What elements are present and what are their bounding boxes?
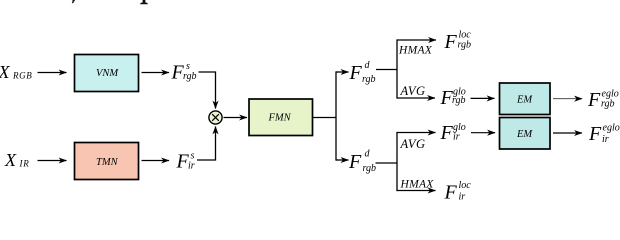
wire arrow AVG rgb: [397, 97, 435, 99]
wire main split vertical: [335, 71, 337, 160]
svg-text:loc: loc: [459, 29, 472, 40]
svg-text:rgb: rgb: [601, 98, 615, 109]
svg-text:F: F: [444, 31, 458, 53]
wire arrow split to F_d_rgb bottom: [336, 159, 349, 161]
node label F_loc_rgb: [444, 29, 472, 53]
wire ir branch vertical: [396, 132, 398, 191]
svg-text:ir: ir: [188, 160, 195, 171]
node label F_eglo_ir: [588, 123, 620, 145]
svg-text:eglo: eglo: [603, 123, 620, 134]
wire arrow X_RGB to VNM: [38, 72, 67, 74]
svg-text:F: F: [440, 122, 454, 144]
node label F_d_rgb top: [349, 60, 376, 85]
node label F_s_rgb: [171, 61, 197, 83]
svg-text:rgb: rgb: [363, 163, 377, 174]
block EM rgb: [500, 83, 551, 115]
svg-text:rgb: rgb: [458, 40, 472, 51]
svg-text:FMN: FMN: [268, 113, 292, 124]
svg-text:VNM: VNM: [96, 68, 119, 79]
block VNM: [75, 55, 139, 92]
node label F_glo_ir: [440, 122, 466, 144]
wire FMN output to split point: [313, 117, 336, 119]
svg-text:HMAX: HMAX: [398, 44, 433, 56]
multiplier node (circled times): [209, 111, 222, 124]
block EM ir: [500, 118, 551, 150]
input label X_RGB: [0, 62, 32, 82]
cropped caption fragment comma: [72, 0, 75, 3]
wire rgb branch vertical: [396, 39, 398, 98]
wire arrow F_glo_ir to EM ir: [471, 132, 495, 134]
svg-text:F: F: [349, 62, 363, 84]
svg-text:IR: IR: [19, 158, 30, 168]
svg-text:F: F: [587, 89, 601, 111]
wire arrow HMAX rgb: [397, 39, 436, 41]
svg-text:F: F: [444, 181, 458, 200]
svg-text:ir: ir: [453, 132, 460, 143]
svg-text:ir: ir: [459, 191, 466, 200]
block TMN: [75, 143, 139, 180]
svg-text:HMAX: HMAX: [400, 179, 435, 191]
svg-text:EM: EM: [516, 94, 533, 105]
block FMN: [249, 99, 313, 136]
svg-text:loc: loc: [459, 180, 472, 191]
node label F_eglo_rgb: [587, 89, 619, 111]
node label F_glo_rgb: [440, 87, 466, 110]
wire arrow multiplier to FMN: [224, 117, 248, 119]
svg-text:F: F: [348, 151, 362, 173]
node label F_s_ir: [176, 150, 195, 172]
svg-text:AVG: AVG: [400, 137, 426, 151]
wire arrow split to F_d_rgb top: [336, 71, 349, 73]
wire F_d_rgb top to rgb branch: [376, 69, 397, 71]
wire arrow EM rgb to F_eglo_rgb: [553, 98, 582, 100]
wire F_d_rgb bottom to ir branch: [376, 162, 398, 164]
svg-text:F: F: [588, 123, 602, 145]
wire arrow TMN to F_s_ir: [142, 160, 170, 162]
wire arrow EM ir to F_eglo_ir: [553, 132, 582, 134]
svg-text:ir: ir: [602, 134, 609, 145]
svg-text:d: d: [365, 60, 371, 71]
node label F_loc_ir: [444, 180, 472, 203]
svg-text:TMN: TMN: [96, 157, 119, 168]
wire F_s_ir up to multiplier: [197, 127, 216, 161]
cropped caption fragment letter stem: [140, 0, 148, 4]
wire F_s_rgb down to multiplier: [199, 72, 216, 109]
svg-text:RGB: RGB: [12, 71, 32, 81]
svg-text:X: X: [0, 62, 11, 82]
wire arrow F_glo_rgb to EM rgb: [471, 97, 495, 99]
svg-text:EM: EM: [516, 129, 533, 140]
wire arrow VNM to F_s_rgb: [142, 72, 170, 74]
node label F_d_rgb bottom: [348, 148, 376, 174]
input label X_IR: [4, 150, 30, 170]
wire arrow X_IR to TMN: [38, 160, 67, 162]
svg-text:d: d: [365, 148, 371, 159]
wire arrow AVG ir: [397, 132, 436, 134]
svg-text:rgb: rgb: [183, 71, 197, 82]
svg-text:rgb: rgb: [362, 74, 376, 85]
svg-text:X: X: [4, 150, 17, 170]
svg-text:AVG: AVG: [400, 84, 426, 98]
wire arrow HMAX ir: [397, 190, 436, 192]
svg-text:rgb: rgb: [452, 95, 466, 106]
